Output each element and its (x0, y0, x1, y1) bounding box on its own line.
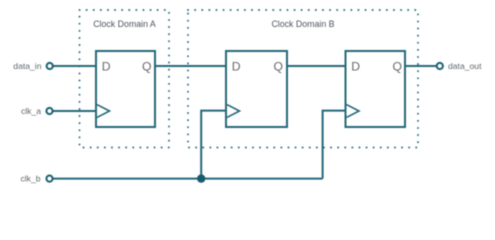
wire data_in to FF1 D (53, 65, 96, 67)
svg-text:clk_b: clk_b (20, 174, 40, 184)
svg-text:D: D (232, 60, 241, 74)
wire FF1 Q to FF2 D (155, 65, 226, 67)
node clk_a terminal (46, 108, 52, 114)
svg-text:data_out: data_out (448, 61, 482, 71)
svg-text:Q: Q (393, 60, 402, 74)
svg-text:Clock Domain A: Clock Domain A (93, 19, 156, 29)
node data_out terminal (437, 63, 443, 69)
junction clk_b / FF2 branch (197, 174, 205, 182)
FF2 clock triangle (227, 105, 240, 118)
wire clk_b horizontal (53, 178, 323, 180)
wire clk_b elbow to FF3 clock (323, 111, 346, 179)
node data_in terminal (47, 63, 53, 69)
svg-text:D: D (102, 60, 111, 74)
node clk_b terminal (46, 176, 52, 182)
flip-flop FF3 body (346, 51, 406, 127)
svg-text:Q: Q (142, 60, 151, 74)
svg-text:clk_a: clk_a (21, 106, 41, 116)
wire FF3 Q to data_out (405, 65, 437, 67)
flip-flop FF2 body (226, 51, 287, 127)
svg-text:data_in: data_in (13, 61, 41, 71)
svg-text:Q: Q (274, 60, 283, 74)
FF3 clock triangle (347, 105, 360, 118)
svg-text:Clock Domain B: Clock Domain B (271, 19, 334, 29)
flip-flop FF1 body (96, 51, 155, 127)
wire clk_b branch to FF2 clock (201, 111, 226, 179)
wire clk_a to FF1 clock (53, 110, 96, 112)
clock domain A dotted boundary (80, 10, 170, 148)
clock domain B dotted boundary (188, 10, 418, 148)
svg-text:D: D (351, 60, 360, 74)
FF1 clock triangle (97, 105, 110, 118)
wire FF2 Q to FF3 D (287, 65, 346, 67)
